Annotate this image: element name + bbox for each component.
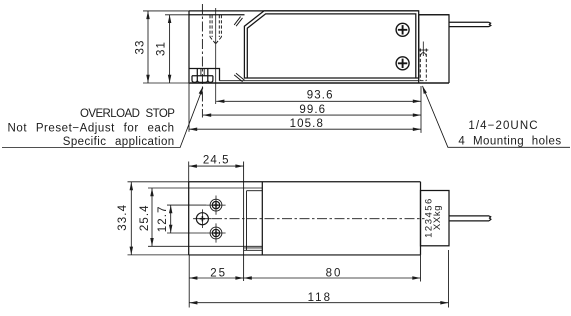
svg-text:24.5: 24.5 (203, 155, 230, 167)
svg-text:25: 25 (210, 267, 227, 279)
svg-text:31: 31 (155, 41, 167, 56)
svg-text:12.7: 12.7 (157, 206, 169, 233)
svg-text:80: 80 (326, 267, 343, 279)
svg-text:OVERLOAD STOP: OVERLOAD STOP (80, 108, 175, 120)
svg-text:93.6: 93.6 (307, 89, 334, 101)
svg-text:1/4−20UNC: 1/4−20UNC (468, 120, 538, 132)
svg-text:25.4: 25.4 (139, 204, 151, 231)
svg-text:99.6: 99.6 (299, 104, 326, 116)
svg-text:XXkg: XXkg (432, 205, 443, 230)
svg-text:33.4: 33.4 (117, 204, 129, 231)
svg-text:4 Mounting holes: 4 Mounting holes (458, 135, 561, 147)
svg-text:Not Preset−Adjust for each: Not Preset−Adjust for each (8, 122, 175, 134)
svg-text:105.8: 105.8 (290, 118, 324, 130)
svg-text:118: 118 (308, 292, 332, 304)
svg-text:33: 33 (134, 40, 146, 55)
svg-text:Specific application: Specific application (63, 136, 175, 148)
